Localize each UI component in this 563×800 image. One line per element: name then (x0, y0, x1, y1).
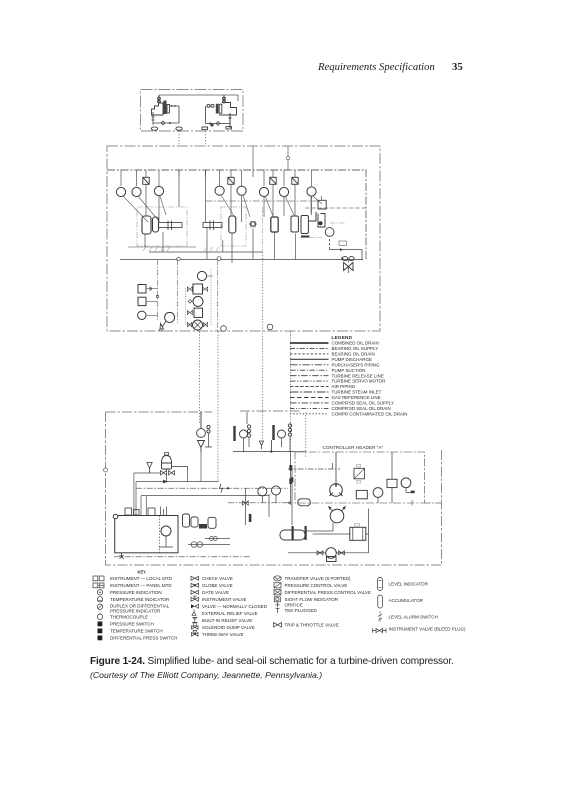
leader lines (123, 195, 322, 222)
svg-text:BEARING OIL SUPPLY: BEARING OIL SUPPLY (332, 346, 379, 351)
degassing drum piping (292, 523, 369, 541)
svg-text:PRESSURE INDICATOR: PRESSURE INDICATOR (110, 608, 161, 613)
running head (318, 61, 435, 73)
svg-text:GATE VALVE: GATE VALVE (202, 590, 229, 595)
junction bubbles on drain header (177, 257, 181, 261)
right main pump unit (202, 95, 237, 130)
nameplate tag (339, 241, 347, 246)
svg-text:THREE-WAY VALVE: THREE-WAY VALVE (202, 632, 244, 637)
svg-text:COMPR'SD SEAL OIL SUPPLY: COMPR'SD SEAL OIL SUPPLY (332, 401, 395, 406)
svg-text:ORIFICE: ORIFICE (285, 603, 303, 608)
svg-text:DIFFERENTIAL PRESS SWITCH: DIFFERENTIAL PRESS SWITCH (110, 636, 177, 641)
svg-text:EXTERNAL RELIEF VALVE: EXTERNAL RELIEF VALVE (202, 611, 258, 616)
upper console boundary (107, 146, 380, 331)
border-to-header connectors (253, 146, 288, 170)
seal-gas filter group 2 (233, 412, 250, 452)
svg-text:INSTRUMENT — PANEL MTD: INSTRUMENT — PANEL MTD (110, 583, 172, 588)
overhead sub-system verticals (158, 259, 218, 331)
console outlet bubbles (221, 326, 227, 332)
svg-text:LEGEND: LEGEND (332, 335, 353, 340)
sight flow lens (250, 221, 256, 228)
header pipe (159, 95, 238, 101)
instrument bubbles row (116, 186, 316, 197)
seal oil header (dash-dot) (114, 488, 292, 557)
steam inlet chain line (206, 200, 319, 202)
drop lines to console (179, 131, 206, 146)
compressor body (291, 200, 326, 237)
relief cluster above controller (233, 440, 306, 453)
svg-text:VALVE — NORMALLY CLOSED: VALVE — NORMALLY CLOSED (202, 604, 268, 609)
figure caption (90, 655, 490, 683)
svg-text:TRIP & THROTTLE VALVE: TRIP & THROTTLE VALVE (285, 623, 339, 628)
distribution piping grid (134, 452, 269, 516)
instrument squares row (143, 177, 298, 184)
svg-text:TEMPERATURE SWITCH: TEMPERATURE SWITCH (110, 629, 163, 634)
svg-text:AIR PIPING: AIR PIPING (332, 384, 356, 389)
svg-text:COMPR'SD SEAL OIL DRAIN: COMPR'SD SEAL OIL DRAIN (332, 406, 391, 411)
svg-text:BUILT-IN RELIEF VALVE: BUILT-IN RELIEF VALVE (202, 618, 252, 623)
svg-text:TEMPERATURE INDICATOR: TEMPERATURE INDICATOR (110, 597, 170, 602)
svg-text:GAS REFERENCE LINE: GAS REFERENCE LINE (332, 395, 381, 400)
svg-text:CHECK VALVE: CHECK VALVE (202, 576, 233, 581)
left border connection bubble (104, 468, 108, 472)
svg-text:COMBINED OIL DRAIN: COMBINED OIL DRAIN (332, 341, 379, 346)
seal-gas filter group 3 (272, 424, 291, 452)
left standby pump unit (151, 95, 182, 130)
svg-text:SOLENOID DUMP VALVE: SOLENOID DUMP VALVE (202, 625, 255, 630)
controller left bus (288, 452, 340, 505)
bottom pump (288, 509, 369, 562)
svg-text:TURBINE RELEASE LINE: TURBINE RELEASE LINE (332, 373, 384, 378)
transfer valve 2 (328, 506, 346, 523)
svg-text:PRESSURE SWITCH: PRESSURE SWITCH (110, 622, 154, 627)
gauges on seal header (258, 486, 281, 503)
centerline marks (330, 222, 345, 224)
flanges on trip line (342, 257, 355, 261)
level gauge with relief (160, 312, 175, 331)
auxiliary pump enclosure (141, 90, 244, 132)
oil reservoir (113, 514, 178, 559)
trip and throttle valve (344, 263, 353, 271)
svg-text:SIGHT FLOW INDICATOR: SIGHT FLOW INDICATOR (285, 597, 339, 602)
sight glasses lines (188, 537, 230, 548)
line break symbol (220, 484, 223, 493)
instruments on reservoir top (125, 507, 167, 516)
supply header (107, 170, 366, 260)
svg-text:DIFFERENTIAL PRESS CONTROL VAL: DIFFERENTIAL PRESS CONTROL VALVE (285, 590, 372, 595)
legend block (290, 335, 407, 416)
svg-text:COMPR CONTAMINATED OIL DRAIN: COMPR CONTAMINATED OIL DRAIN (332, 411, 408, 416)
svg-text:LEVEL ALARM SWITCH: LEVEL ALARM SWITCH (389, 615, 438, 620)
main oil pump (142, 216, 236, 234)
svg-text:CONTROLLER HEADER “A”: CONTROLLER HEADER “A” (323, 445, 384, 450)
svg-text:PUMP SUCTION: PUMP SUCTION (332, 368, 366, 373)
relief valve left (147, 463, 152, 474)
seal oil pumps beside reservoir (183, 514, 217, 529)
train sub-enclosures (137, 207, 263, 252)
svg-text:LEVEL INDICATOR: LEVEL INDICATOR (389, 582, 429, 587)
seal oil trap left (280, 530, 305, 540)
left instrument column (138, 285, 159, 320)
oil bottle / degasser (161, 453, 188, 482)
compressor gauge (325, 228, 334, 237)
page number (452, 61, 463, 73)
discharge to trip valve (120, 239, 363, 260)
gear unit (271, 217, 278, 232)
svg-text:TEE-PLUGGED: TEE-PLUGGED (285, 608, 318, 613)
dp orifice assembly (354, 465, 365, 484)
svg-text:GLOBE VALVE: GLOBE VALVE (202, 583, 233, 588)
seal oil overhead vessel (298, 499, 311, 506)
svg-text:ACCUMULATOR: ACCUMULATOR (389, 598, 424, 603)
svg-text:TRANSFER VALVE (6 PORTED): TRANSFER VALVE (6 PORTED) (285, 576, 352, 581)
svg-text:TURBINE SERVO MOTOR: TURBINE SERVO MOTOR (332, 379, 386, 384)
svg-text:INSTRUMENT — LOCAL MTD: INSTRUMENT — LOCAL MTD (110, 576, 173, 581)
cooler box (350, 524, 366, 541)
equipment risers (145, 170, 322, 263)
svg-text:PRESSURE INDICATION: PRESSURE INDICATION (110, 590, 162, 595)
inter-console risers (200, 252, 306, 482)
svg-text:TURBINE STEAM INLET: TURBINE STEAM INLET (332, 390, 382, 395)
gas reference line (305, 207, 366, 209)
controller instruments (356, 452, 414, 503)
controller header boundary (295, 452, 425, 503)
svg-text:PUMP DISCHARGE: PUMP DISCHARGE (332, 357, 372, 362)
seal-gas filter group 1 (197, 412, 212, 452)
branch drops (121, 170, 312, 186)
svg-text:PRESSURE CONTROL VALVE: PRESSURE CONTROL VALVE (285, 583, 348, 588)
svg-text:THERMOCOUPLE: THERMOCOUPLE (110, 615, 148, 620)
svg-text:INSTRUMENT VALVE (BLEED PLUG): INSTRUMENT VALVE (BLEED PLUG) (389, 627, 467, 632)
lower console boundary (106, 411, 442, 565)
bypass valve branch (243, 465, 294, 525)
svg-text:KEY: KEY (138, 570, 147, 575)
svg-text:BEARING OIL DRAIN: BEARING OIL DRAIN (332, 352, 375, 357)
controller bottom tie line (412, 500, 442, 506)
transfer valve 1 (329, 452, 343, 497)
svg-text:INSTRUMENT VALVE: INSTRUMENT VALVE (202, 597, 247, 602)
turbine driver (203, 223, 222, 228)
pump base hatching (143, 247, 219, 251)
svg-text:PURCHASER'S PIPING: PURCHASER'S PIPING (332, 362, 380, 367)
accumulator instrument stack (186, 269, 213, 330)
key block (93, 570, 466, 641)
